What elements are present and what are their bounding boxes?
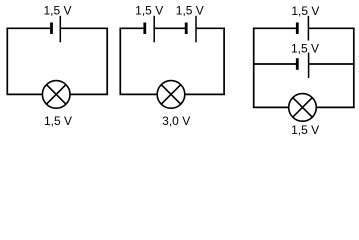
circuit 3 top wire right segment [308, 27, 354, 29]
circuit 2 left side wire [119, 28, 121, 94]
circuit 2 right side wire [223, 28, 225, 94]
circuit 3 bottom wire right segment [316, 106, 355, 108]
svg-text:1,5 V: 1,5 V [291, 4, 319, 18]
circuit 1 left side wire [6, 28, 8, 94]
circuit 3 middle wire left segment [253, 63, 297, 65]
svg-text:1,5 V: 1,5 V [44, 114, 72, 128]
lamp L2 cross [161, 85, 181, 105]
battery B4 long plate [307, 16, 309, 41]
battery B1 long plate [59, 16, 61, 43]
battery B3 long plate [195, 16, 197, 43]
battery B2 short plate [143, 23, 146, 35]
svg-text:1,5 V: 1,5 V [135, 4, 163, 18]
svg-text:1,5 V: 1,5 V [291, 123, 319, 137]
svg-text:1,5 V: 1,5 V [43, 4, 71, 18]
battery B5 long plate [308, 53, 310, 79]
svg-text:1,5 V: 1,5 V [291, 41, 319, 55]
circuit 3 middle wire right segment [309, 63, 355, 65]
circuit 1 bottom wire right segment [70, 93, 108, 95]
battery B5 short plate [296, 58, 299, 70]
circuit 3 left side wire [253, 28, 255, 107]
lamp L3 circle [289, 94, 317, 122]
circuit 2 top wire left segment [120, 27, 145, 29]
circuit 2 top wire right segment [196, 27, 225, 29]
circuit 1 top wire right segment [60, 27, 108, 29]
svg-text:3,0 V: 3,0 V [162, 114, 190, 128]
battery B4 short plate [296, 23, 299, 35]
circuit 2 bottom wire left segment [120, 93, 158, 95]
circuit 3 bottom wire left segment [253, 106, 289, 108]
lamp L3 cross [293, 98, 313, 118]
battery B2 long plate [153, 16, 155, 43]
battery B3 short plate [185, 23, 188, 35]
circuit 1 top wire left segment [7, 27, 52, 29]
circuit 3 right side wire [353, 28, 355, 107]
battery B1 short plate [50, 23, 53, 35]
circuit 2 bottom wire right segment [185, 93, 225, 95]
circuit 1 right side wire [106, 28, 108, 94]
circuit 1 bottom wire left segment [7, 93, 43, 95]
circuit 2 top wire middle segment [154, 27, 186, 29]
svg-text:1,5 V: 1,5 V [176, 4, 204, 18]
lamp L2 circle [157, 81, 185, 109]
lamp L1 cross [46, 85, 66, 105]
circuit 3 top wire left segment [253, 27, 297, 29]
lamp L1 circle [42, 81, 70, 109]
